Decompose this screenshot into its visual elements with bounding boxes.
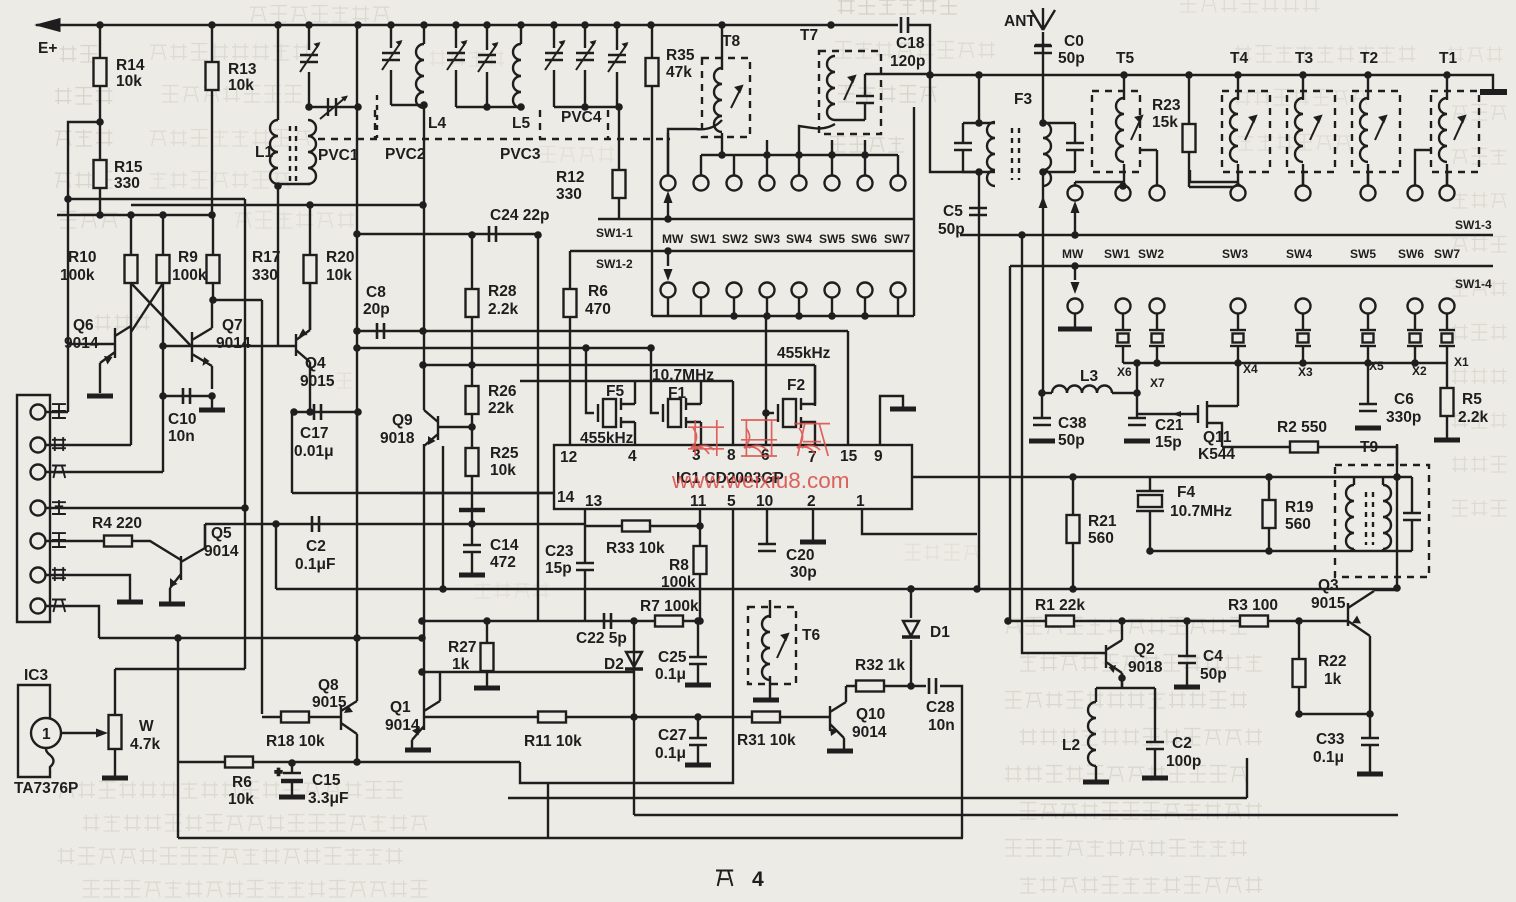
wire R28 column <box>471 235 473 365</box>
wire C24 right column <box>537 235 539 621</box>
rail y638 dots <box>174 634 426 642</box>
svg-text:R2 550: R2 550 <box>1277 419 1327 436</box>
wire colour label yel <box>52 466 66 479</box>
transformer T2 dashed box <box>1352 91 1400 172</box>
svg-text:R4 220: R4 220 <box>92 515 142 532</box>
adjust arrow T4 <box>1245 116 1256 140</box>
ground T6 <box>753 699 779 701</box>
svg-text:330p: 330p <box>1386 409 1421 426</box>
wire MW wiper to T8 tap <box>667 133 669 176</box>
switch contact SW1-1 pos3 <box>760 176 775 191</box>
varicap PVC1 section <box>300 42 321 72</box>
crystal bus dots <box>1133 359 1419 367</box>
svg-text:K544: K544 <box>1198 446 1235 463</box>
resistor R13 <box>206 62 219 90</box>
svg-text:4: 4 <box>628 448 637 465</box>
svg-text:9015: 9015 <box>1311 595 1346 612</box>
wire L1 bottom link <box>278 184 310 346</box>
svg-text:SW6: SW6 <box>851 232 877 246</box>
connector pin pur <box>31 534 46 549</box>
adjust arrow T5 <box>1131 116 1142 140</box>
gang dashed riser <box>376 95 378 138</box>
capacitor C4 <box>1178 656 1196 663</box>
ground Q10 <box>827 750 853 752</box>
svg-text:TA7376P: TA7376P <box>14 780 78 797</box>
wire T8 top stub <box>721 25 723 70</box>
bleed text row 44 <box>58 848 402 864</box>
svg-text:R8: R8 <box>669 557 689 574</box>
capacitor C25 <box>689 657 707 664</box>
switch contact SW1-4 pos2 <box>1150 299 1165 314</box>
svg-text:R5: R5 <box>1462 391 1482 408</box>
bleed text row 46 <box>475 582 549 598</box>
transistor Q1 <box>412 672 538 748</box>
resistor R14 <box>94 58 107 86</box>
row y621 dots <box>418 617 638 625</box>
wire C5 column <box>978 172 980 589</box>
switch contact SW1-3 pos4 <box>1296 186 1311 201</box>
svg-text:4.7k: 4.7k <box>130 736 161 753</box>
svg-text:L3: L3 <box>1080 368 1098 385</box>
svg-text:R32 1k: R32 1k <box>855 657 905 674</box>
bleed text row 38 <box>1005 766 1247 782</box>
wire detector row y621 <box>422 620 700 622</box>
svg-text:R31 10k: R31 10k <box>737 732 796 749</box>
wire R22 column <box>1298 621 1300 714</box>
capacitor C33 <box>1361 738 1379 745</box>
diode D2 <box>625 652 643 669</box>
svg-text:22k: 22k <box>488 400 514 417</box>
svg-text:455kHz: 455kHz <box>580 430 634 447</box>
wire T5 tap to SW1-3 <box>1140 149 1157 151</box>
svg-text:10n: 10n <box>168 428 195 445</box>
resistor R4 <box>104 536 132 547</box>
transistor Q10 <box>830 686 846 749</box>
svg-text:R9: R9 <box>178 249 198 266</box>
coil T7 <box>827 56 835 120</box>
resistor R7 <box>655 616 683 627</box>
switch contact SW1-3 pos2 <box>1150 186 1165 201</box>
ground Q6 <box>87 395 113 397</box>
wire L2 column <box>1095 688 1097 780</box>
node E+ left rail dot <box>64 195 72 203</box>
wire audio out row y762 <box>178 638 520 762</box>
adjust arrow T2 <box>1375 116 1386 140</box>
wire C17 right leg <box>356 413 358 493</box>
svg-text:10n: 10n <box>928 717 955 734</box>
wire F1 top prong <box>700 381 702 404</box>
IC3 pin1 circle <box>31 718 61 748</box>
wire C33 lower <box>1369 745 1371 772</box>
Q4 base node <box>159 342 167 350</box>
wire X7 stub <box>1156 313 1158 363</box>
node C25 top <box>694 617 702 625</box>
capacitor C2b <box>1146 742 1164 749</box>
svg-text:Q1: Q1 <box>390 699 411 716</box>
svg-text:T6: T6 <box>802 627 820 644</box>
bleed text row 13 <box>838 0 957 14</box>
resistor R19 <box>1263 500 1276 528</box>
C24 nodes <box>468 231 542 239</box>
svg-text:330: 330 <box>114 175 140 192</box>
svg-text:L1: L1 <box>255 144 273 161</box>
E+ bus junction dots <box>96 21 835 29</box>
wire bias bus y215 <box>57 214 213 216</box>
wire Q7 emitter gnd stub <box>211 396 213 410</box>
wire R19 column <box>1268 477 1270 551</box>
bleed text row 4 <box>162 86 301 102</box>
svg-text:C4: C4 <box>1203 648 1223 665</box>
switch contact SW1-4 pos3 <box>1231 299 1246 314</box>
svg-text:Q2: Q2 <box>1134 641 1155 658</box>
svg-text:SW7: SW7 <box>1434 247 1460 261</box>
wire varicap V2 stubs <box>390 25 392 105</box>
coil L4 <box>416 44 424 108</box>
svg-text:F1: F1 <box>668 385 686 402</box>
svg-text:R6: R6 <box>588 283 608 300</box>
svg-text:560: 560 <box>1285 516 1311 533</box>
ceramic filter F5 <box>598 398 635 428</box>
capacitor C2 <box>312 516 319 532</box>
svg-text:470: 470 <box>585 301 611 318</box>
wire L4 column <box>423 25 425 44</box>
wire X6 stub <box>1122 313 1124 363</box>
svg-text:C27: C27 <box>658 727 686 744</box>
row y762 dots <box>288 758 361 767</box>
wire X4 stub <box>1237 313 1239 363</box>
bleed text row 7 <box>55 172 112 188</box>
svg-text:SW4: SW4 <box>786 232 812 246</box>
svg-text:PVC4: PVC4 <box>561 109 602 126</box>
wire main audio column x424 upper <box>423 105 425 410</box>
ceramic filter F2 <box>766 398 815 445</box>
wire R5 stub <box>1446 363 1448 438</box>
switch contact SW1-3 pos1 <box>1116 186 1131 201</box>
svg-text:15k: 15k <box>1152 114 1178 131</box>
svg-text:0.01μ: 0.01μ <box>294 443 334 460</box>
bleed text row 12 <box>300 373 352 388</box>
rail y365 dots <box>419 361 476 369</box>
wire T8 bottom to bus <box>721 133 723 155</box>
resistor R31 <box>752 712 780 723</box>
crystal X5 <box>1360 330 1376 346</box>
ceramic filter F1 <box>663 398 701 428</box>
svg-text:C28: C28 <box>926 699 955 716</box>
svg-text:F2: F2 <box>787 377 805 394</box>
coil L1 <box>270 120 278 184</box>
bleed text row 11 <box>95 314 150 330</box>
wire MW xtal stub <box>1074 313 1076 328</box>
wire T9 left column <box>1353 477 1355 551</box>
svg-text:C38: C38 <box>1058 415 1087 432</box>
wire cross couple A <box>131 283 192 347</box>
switch contact SW1-2 pos5 <box>825 283 840 298</box>
wire 绿 lead <box>45 507 245 509</box>
svg-text:SW3: SW3 <box>754 232 780 246</box>
svg-text:5: 5 <box>727 493 736 510</box>
wire colour label pur <box>52 533 66 547</box>
svg-text:E+: E+ <box>38 40 57 57</box>
red watermark brand glyphs <box>688 420 724 456</box>
svg-text:Q5: Q5 <box>211 525 232 542</box>
wire R21 column <box>1072 477 1074 589</box>
svg-text:10k: 10k <box>326 267 352 284</box>
wire R18 row <box>262 716 341 718</box>
resistor R23 <box>1183 124 1196 152</box>
svg-text:R7 100k: R7 100k <box>640 598 699 615</box>
transformer T8 dashed box <box>702 58 750 137</box>
node C18 right <box>926 71 934 79</box>
svg-text:SW1: SW1 <box>690 232 716 246</box>
E+ bus arrowhead <box>36 19 60 32</box>
svg-text:R3 100: R3 100 <box>1228 597 1278 614</box>
svg-text:4: 4 <box>752 868 764 891</box>
ground Q5 <box>159 603 185 605</box>
capacitor C14 <box>463 545 481 552</box>
wire varicap V4 stubs <box>486 25 488 107</box>
wire switch line SW1-2 <box>570 250 913 252</box>
svg-text:MW: MW <box>662 232 684 246</box>
wire bias rail y199 <box>68 198 245 200</box>
svg-text:SW1-4: SW1-4 <box>1455 277 1492 291</box>
svg-text:PVC1: PVC1 <box>318 147 359 164</box>
switch contact SW1-2 pos7 <box>891 283 906 298</box>
svg-text:SW3: SW3 <box>1222 247 1248 261</box>
resistor R17 <box>207 255 220 283</box>
svg-text:15p: 15p <box>545 560 572 577</box>
bleed text row 15 <box>835 42 995 58</box>
ground C6 <box>1355 427 1381 429</box>
switch contact SW1-1 pos5 <box>825 176 840 191</box>
wire x245 column <box>244 199 246 669</box>
crystal filter F4 <box>1136 491 1164 511</box>
switch contact SW1-3 pos3 <box>1231 186 1246 201</box>
bleed text row 34 <box>1005 618 1247 634</box>
coil T5 <box>1116 98 1124 162</box>
wire colour label grn <box>52 500 66 514</box>
wire T7 left tap <box>799 124 835 155</box>
wire C28 row <box>911 686 962 838</box>
ground C2b <box>1142 777 1168 779</box>
ground C33 <box>1357 773 1383 775</box>
wire Q2 emitter row <box>1096 673 1155 688</box>
svg-text:100p: 100p <box>1166 753 1201 770</box>
svg-text:Q6: Q6 <box>73 317 94 334</box>
wire main audio column x424 lower <box>423 444 425 707</box>
capacitor C18 <box>901 17 908 33</box>
wire colour label org <box>52 437 66 451</box>
C17 nodes <box>290 408 362 416</box>
svg-text:T3: T3 <box>1295 50 1313 67</box>
svg-text:SW4: SW4 <box>1286 247 1312 261</box>
svg-text:1: 1 <box>42 726 51 743</box>
ground C38 <box>1029 440 1055 442</box>
connector pin grn <box>31 501 46 516</box>
wire C10 row <box>163 395 212 397</box>
svg-text:Q7: Q7 <box>222 317 243 334</box>
node T8 top <box>718 21 726 29</box>
ground 蓝 lead <box>117 601 143 603</box>
wire T8 tap to MW switch <box>668 120 722 176</box>
R26 nodes <box>468 423 476 431</box>
wire T5 column <box>1123 75 1125 185</box>
svg-text:100k: 100k <box>60 267 95 284</box>
wire C18 link <box>831 25 930 75</box>
svg-text:30p: 30p <box>790 564 817 581</box>
svg-text:IC3: IC3 <box>24 667 49 684</box>
wire C27 lower <box>697 745 699 763</box>
wire R27 column <box>486 621 488 686</box>
rail y348 dots <box>353 344 655 352</box>
svg-text:472: 472 <box>490 554 516 571</box>
wire varicap V5 stubs <box>553 25 555 107</box>
rail y589 dots <box>439 585 981 593</box>
transformer T4 dashed box <box>1222 91 1270 172</box>
potentiometer W <box>109 715 122 749</box>
resistor R3 <box>1240 616 1268 627</box>
svg-text:C14: C14 <box>490 537 519 554</box>
pin11 dots <box>696 522 704 625</box>
capacitor C5 <box>969 208 987 215</box>
wire rail y348 <box>357 347 651 349</box>
transformer T3 dashed box <box>1287 91 1335 172</box>
coil L2 <box>1088 702 1096 766</box>
tank bottom nodes <box>420 101 623 111</box>
bleed text row 32 <box>540 146 614 162</box>
svg-text:R28: R28 <box>488 283 517 300</box>
wire C4 lower <box>1186 663 1188 685</box>
switch contact SW1-1 pos7 <box>891 176 906 191</box>
adjust arrow T8 <box>731 86 742 108</box>
capacitor F3 left <box>954 143 972 150</box>
connector pin yel <box>31 465 46 480</box>
svg-text:SW1-3: SW1-3 <box>1455 218 1492 232</box>
wire C27 column <box>697 717 699 738</box>
wire X3 stub <box>1302 313 1304 363</box>
transformer T7 dashed box <box>819 51 881 134</box>
wire PVC1 trimmer link <box>309 106 358 108</box>
svg-text:1k: 1k <box>1324 671 1342 688</box>
svg-text:SW5: SW5 <box>819 232 845 246</box>
svg-text:R1 22k: R1 22k <box>1035 597 1085 614</box>
bleed text row 23 <box>1452 148 1507 164</box>
svg-text:R18 10k: R18 10k <box>266 733 325 750</box>
svg-text:F3: F3 <box>1014 91 1032 108</box>
svg-text:PVC3: PVC3 <box>500 146 541 163</box>
svg-text:120p: 120p <box>890 53 925 70</box>
wire R6 column to IC pin12 <box>569 251 571 445</box>
ground C21 <box>1124 440 1150 442</box>
resistor R35 <box>646 58 659 86</box>
switch contact SW1-4 pos6 <box>1408 299 1423 314</box>
wire rail y365 <box>423 365 815 406</box>
svg-text:SW5: SW5 <box>1350 247 1376 261</box>
capacitor C27 <box>689 738 707 745</box>
wire volume rail y524 <box>205 523 586 525</box>
svg-text:R35: R35 <box>666 47 695 64</box>
SW1-2 lower bus dots <box>730 312 869 320</box>
capacitor C17 <box>314 404 321 420</box>
switch contact SW1-4 pos0 <box>1068 299 1083 314</box>
wire F3 bottom links <box>963 150 1075 172</box>
coil L5 <box>513 44 521 108</box>
svg-text:10: 10 <box>756 493 773 510</box>
coil T8 <box>714 68 722 132</box>
wire varicap V6 stubs <box>584 25 586 107</box>
svg-text:C5: C5 <box>943 203 963 220</box>
coil F3 right <box>1043 122 1051 186</box>
resistor R25 <box>466 448 479 476</box>
wire L1 top stub <box>277 25 279 120</box>
transformer T1 dashed box <box>1431 91 1479 172</box>
svg-text:560: 560 <box>1088 530 1114 547</box>
wire pot lower <box>114 749 116 776</box>
wire F5 bottom prong <box>634 422 636 445</box>
coil L3 <box>1052 386 1112 394</box>
wire C14 column <box>471 524 473 545</box>
resistor R18 <box>281 712 309 723</box>
wire D2 column <box>633 621 635 815</box>
wire F2 top prong link <box>814 365 816 404</box>
svg-text:1: 1 <box>856 493 865 510</box>
bleed text row 26 <box>1452 280 1507 296</box>
svg-text:X7: X7 <box>1150 376 1165 390</box>
ground pin2 <box>800 541 826 543</box>
wire C38 stub <box>1041 393 1043 418</box>
svg-text:R19: R19 <box>1285 499 1314 516</box>
svg-text:50p: 50p <box>1058 432 1085 449</box>
pin16 rail dots <box>1069 473 1401 481</box>
svg-text:SW6: SW6 <box>1398 247 1424 261</box>
switch contact SW1-2 pos2 <box>727 283 742 298</box>
rail y524 dots <box>272 520 476 528</box>
svg-text:0.1μF: 0.1μF <box>295 556 336 573</box>
wire C33 column <box>1369 714 1371 738</box>
wire osc bus stubs <box>734 140 865 176</box>
svg-text:9014: 9014 <box>852 724 887 741</box>
svg-text:L2: L2 <box>1062 737 1080 754</box>
wire switch line SW1-4 <box>1010 265 1493 267</box>
svg-text:ANT: ANT <box>1004 13 1036 30</box>
node SW1-1 MW <box>664 215 672 223</box>
wire AGC rail y589 <box>276 524 977 589</box>
varicap PVC4 section <box>576 40 597 70</box>
wire AF rail y493 (left part) <box>292 492 554 494</box>
svg-text:C2: C2 <box>306 538 326 555</box>
core dashes F3 <box>1012 128 1019 180</box>
svg-text:455kHz: 455kHz <box>777 345 831 362</box>
svg-text:1k: 1k <box>452 656 470 673</box>
wire F1 left <box>651 348 659 413</box>
svg-text:C23: C23 <box>545 543 574 560</box>
trimmer cap PVC1 <box>320 96 348 120</box>
svg-text:14: 14 <box>557 489 575 506</box>
svg-text:8: 8 <box>727 447 736 464</box>
row y714 dots <box>1295 710 1374 718</box>
wire bias rail y205 <box>131 204 423 206</box>
bleed text row 10 <box>235 212 354 228</box>
switch contact SW1-1 pos1 <box>694 176 709 191</box>
wire R10 column <box>130 215 132 445</box>
svg-text:F5: F5 <box>606 383 624 400</box>
wire R2 link <box>1222 447 1397 465</box>
node SW1-2 MW <box>664 247 672 255</box>
resistor R32 <box>856 681 884 692</box>
wire bias row y621 right <box>1008 620 1348 622</box>
bleed text row 31 <box>1452 500 1507 516</box>
ground Q7 <box>199 409 225 411</box>
wire C18 to F3 gnd link <box>930 75 979 172</box>
